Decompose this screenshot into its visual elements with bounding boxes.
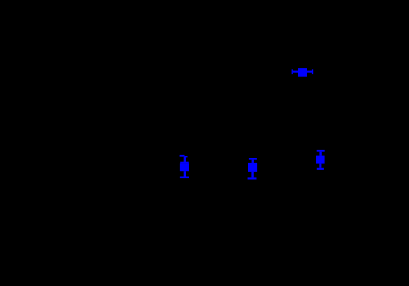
bottom vertical lead of X1 [184,171,186,176]
pin-end tick right of R1 [312,69,313,74]
bottom vertical lead of X3 [319,164,321,168]
right lead of R1 [307,71,312,73]
bottom plate of X2 [248,177,257,179]
top vertical lead of X2 [252,160,254,163]
crystal X2 (middle vertical box symbol, selected/blue) [248,158,258,180]
bottom plate of X3 [317,168,324,170]
crystal X1 (left vertical box symbol, selected/blue) [180,155,189,178]
crystal X3 (right vertical box symbol, selected/blue) [316,150,325,170]
top plate of X1 [180,162,189,164]
bent top lead of X1 (comes in from the left) [180,155,185,157]
body box of X3 [316,156,325,164]
body box of R1 [298,68,307,77]
top plate of X2 [249,158,257,160]
top vertical lead of X3 [319,152,321,156]
top plate of X3 [317,150,325,152]
body box of X1 [180,163,189,171]
pin-end tick left of R1 [292,69,293,74]
resistor R1 (horizontal box symbol, selected/blue) [292,68,314,77]
body box of X2 [248,163,257,172]
bottom plate of X1 [180,177,189,179]
left lead of R1 [293,71,298,73]
top vertical lead of X1 [184,157,186,162]
top pin tick of X1 [184,156,187,157]
bottom vertical lead of X2 [251,172,253,178]
